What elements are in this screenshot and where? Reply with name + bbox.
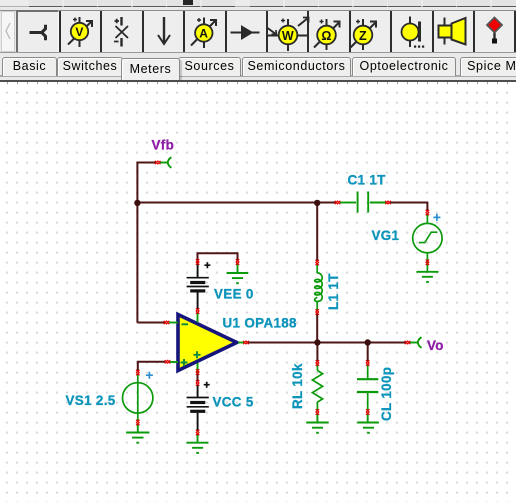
wire output row xyxy=(248,342,407,344)
tab Meters (selected) xyxy=(121,58,180,81)
icon 8 : ohmmeter xyxy=(314,19,340,50)
wire inverting input xyxy=(137,322,165,324)
svg-text:VCC 5: VCC 5 xyxy=(213,394,254,409)
svg-text:W: W xyxy=(282,29,294,43)
source VS1 xyxy=(123,375,153,421)
svg-text:VEE 0: VEE 0 xyxy=(214,286,254,301)
tab Optoelectronic xyxy=(352,57,456,76)
wire left vertical xyxy=(136,162,138,323)
toolbar row background xyxy=(0,8,516,55)
plus sign VG1 xyxy=(433,214,440,221)
tab Sources xyxy=(178,57,241,76)
node junction output RL xyxy=(314,339,320,345)
icon 12 : red probe xyxy=(487,18,502,44)
battery VCC xyxy=(187,382,210,431)
top strip: bottoms of previous toolbar row xyxy=(0,0,516,8)
generator VG1 xyxy=(413,214,442,271)
svg-text:VS1 2.5: VS1 2.5 xyxy=(66,393,116,408)
resistor RL xyxy=(312,365,322,411)
tab Switches xyxy=(57,57,123,76)
ruler ticks xyxy=(8,82,508,85)
icon 10 : signal meter xyxy=(402,17,425,48)
plus mark supply xyxy=(194,351,201,358)
battery VEE xyxy=(187,262,211,309)
wire L1 top xyxy=(316,204,318,262)
icon 4 : down arrow xyxy=(158,17,170,44)
ground near VEE xyxy=(227,263,249,283)
svg-text:Vfb: Vfb xyxy=(152,138,175,153)
svg-text:A: A xyxy=(199,27,208,41)
svg-text:V: V xyxy=(75,25,83,39)
icon 9 : impedance meter xyxy=(351,19,377,50)
tab Spice Macros xyxy=(460,57,516,76)
terminal Vo xyxy=(410,337,422,348)
plus sign VS1 xyxy=(146,372,153,379)
wire L1 bottom xyxy=(316,313,318,343)
node junction output CL xyxy=(365,339,371,345)
minus mark xyxy=(182,323,189,325)
ground under VG1 xyxy=(417,272,439,282)
icon 5 : ammeter xyxy=(191,18,216,49)
node junction L1 top xyxy=(314,200,320,206)
ground under VS1 xyxy=(126,424,149,443)
wire C1 right to VG1 top xyxy=(390,203,427,212)
svg-text:VG1: VG1 xyxy=(372,228,400,243)
toolbar icons xyxy=(0,0,516,56)
capacitor C1 xyxy=(340,192,386,213)
canvas top border xyxy=(0,80,516,82)
wire RL drop xyxy=(316,344,318,363)
tab Basic xyxy=(2,57,57,76)
svg-text:Z: Z xyxy=(359,29,367,43)
wire Vfb stub xyxy=(137,162,157,164)
wire main horizontal feedback xyxy=(136,202,336,204)
icon 1 : voltage pin tool xyxy=(30,25,46,41)
tab bar xyxy=(0,55,516,80)
ground under CL xyxy=(357,414,379,433)
wire CL drop xyxy=(367,344,369,363)
button faces xyxy=(59,11,516,52)
chevron xyxy=(6,23,10,39)
svg-text:Ω: Ω xyxy=(321,29,331,43)
pin stubs xyxy=(169,322,178,324)
icon 3 : voltage arrow marks xyxy=(114,17,128,47)
pin connection marks (red) xyxy=(136,161,429,436)
icon 11 : speaker xyxy=(439,18,466,45)
wire VS1 to non-inverting input xyxy=(138,362,165,372)
inductor L1 xyxy=(315,264,323,311)
capacitor CL xyxy=(357,365,378,411)
icon 7 : power meter xyxy=(268,18,309,52)
ground under RL xyxy=(306,414,328,433)
svg-text:L1 1T: L1 1T xyxy=(326,273,341,310)
terminal Vfb xyxy=(160,157,172,168)
svg-text:Vo: Vo xyxy=(427,338,444,353)
node junction Vfb net xyxy=(134,200,140,206)
svg-text:RL 10k: RL 10k xyxy=(290,363,305,409)
pressed first button xyxy=(16,10,59,53)
ground under VCC xyxy=(187,435,209,453)
svg-text:CL 100p: CL 100p xyxy=(379,367,394,421)
op-amp U1 xyxy=(169,312,246,375)
scroll-left chevron button xyxy=(1,11,15,52)
wire op-amp V+ to VCC xyxy=(197,372,199,382)
svg-text:U1 OPA188: U1 OPA188 xyxy=(223,315,298,330)
plus mark input xyxy=(181,359,188,366)
icon 2 : voltmeter xyxy=(68,17,92,47)
wire VEE rail to ground xyxy=(198,253,238,263)
svg-text:C1 1T: C1 1T xyxy=(348,173,387,188)
icon 6 : current arrow xyxy=(231,27,260,38)
tab Semiconductors xyxy=(242,57,351,76)
